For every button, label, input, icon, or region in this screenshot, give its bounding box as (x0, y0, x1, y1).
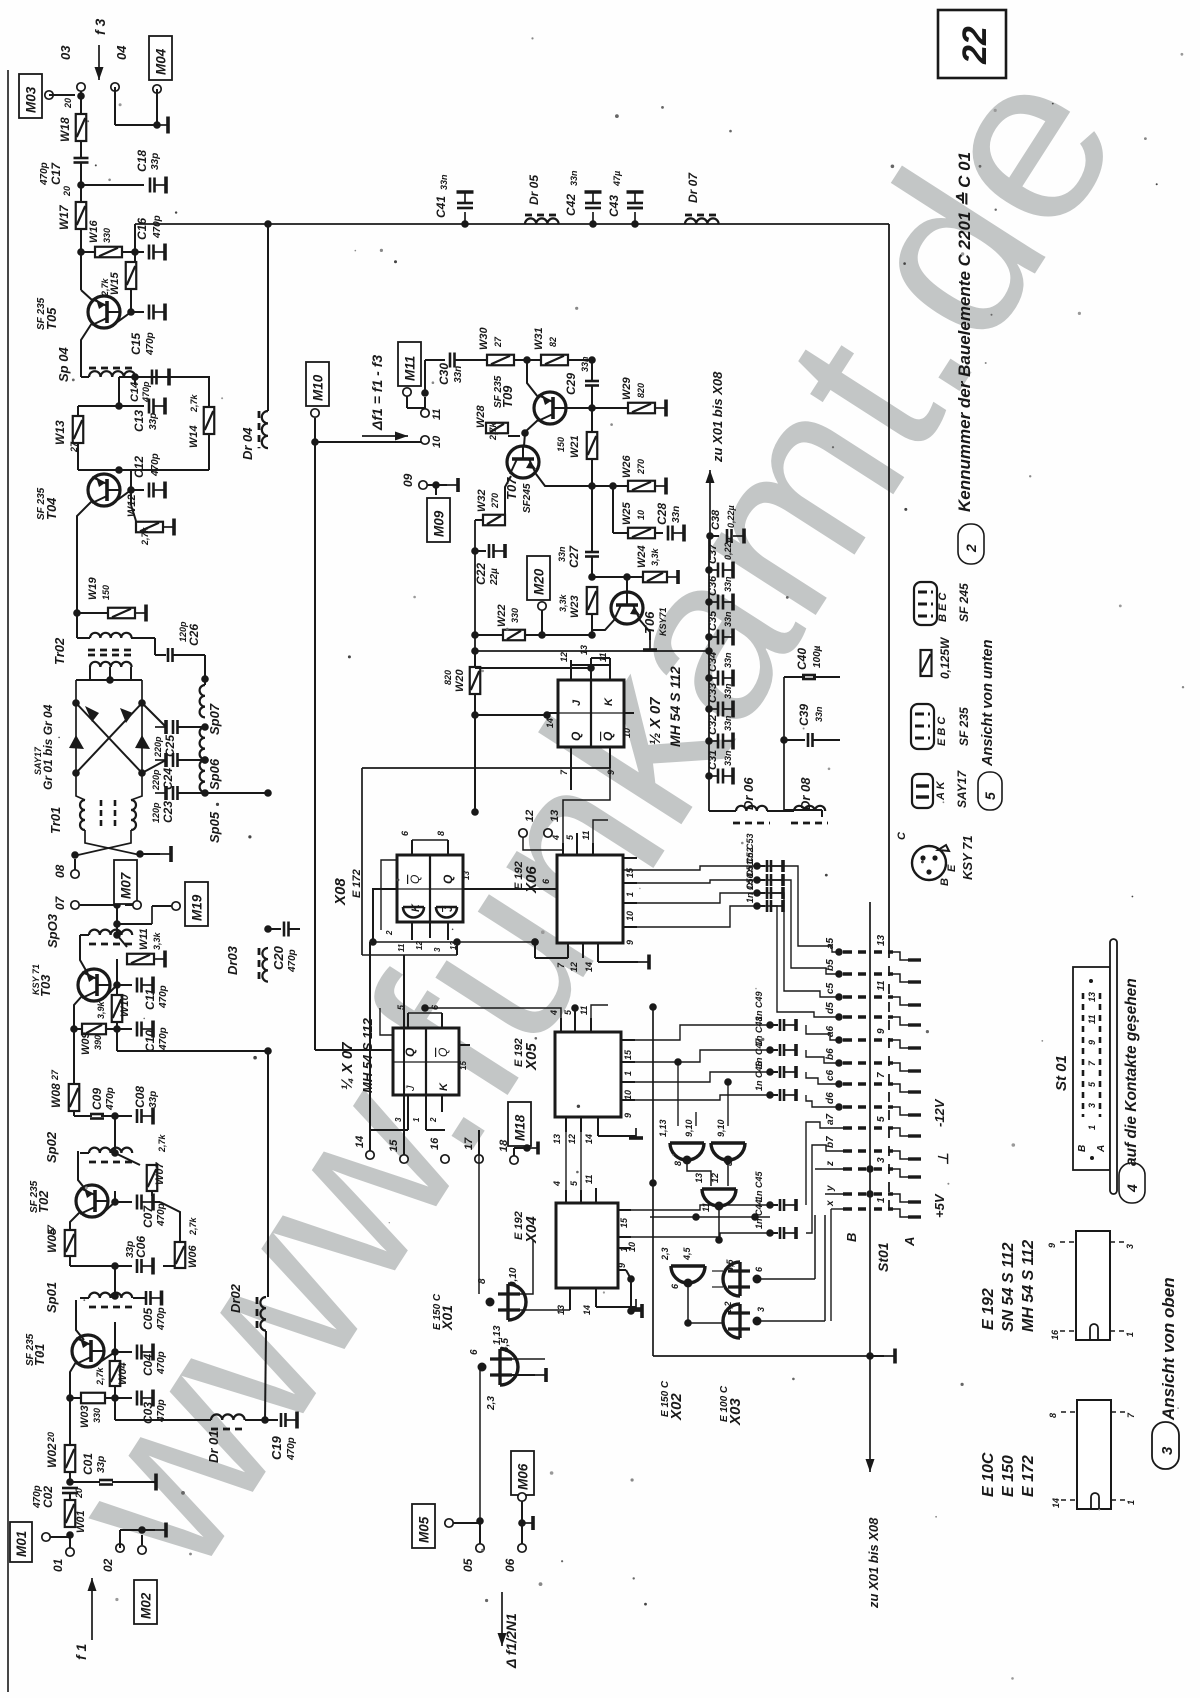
gate B-C wire (727, 1160, 729, 1186)
node W23 top (588, 573, 596, 581)
svg-text:Q: Q (436, 1048, 450, 1057)
cap C27 (585, 551, 599, 554)
T02 collector node (104, 1202, 115, 1212)
svg-text:C10: C10 (143, 1030, 157, 1052)
svg-text:3,3k: 3,3k (558, 593, 568, 612)
IC view E100 pins (1061, 1411, 1077, 1413)
svg-text:3,3k: 3,3k (152, 931, 162, 950)
oval 4 (1119, 1163, 1145, 1203)
junction z (866, 1165, 874, 1173)
wire to Sp07 (204, 655, 206, 679)
resistor W11 (117, 935, 127, 947)
svg-text:33n: 33n (453, 366, 464, 383)
resistor W32 (505, 476, 511, 515)
svg-text:M04: M04 (154, 48, 169, 75)
svg-text:1: 1 (623, 1071, 633, 1076)
svg-text:Dr 08: Dr 08 (798, 777, 813, 810)
left paper edge line (7, 70, 9, 1692)
box M06 (511, 1451, 534, 1495)
svg-text:33n: 33n (569, 170, 579, 186)
IC view MH54S112 (1076, 1231, 1110, 1340)
St01 ground (866, 1352, 874, 1360)
svg-text:10: 10 (636, 510, 646, 520)
cap C11 (117, 984, 132, 986)
connector pin a7 (843, 1126, 866, 1129)
svg-text:W26: W26 (621, 455, 633, 479)
cap C24 (142, 760, 166, 773)
connector pin d5 (835, 1013, 843, 1021)
wires z y x (815, 1168, 843, 1170)
X01a wires (479, 1165, 490, 1302)
svg-text:12: 12 (567, 1134, 577, 1144)
svg-text:150: 150 (101, 585, 111, 600)
wires to connector a6-d6 (806, 1025, 839, 1040)
cap C12 (131, 489, 144, 491)
svg-text:E 10C: E 10C (980, 1452, 997, 1497)
svg-text:C26: C26 (187, 624, 201, 646)
diode Gr01 (85, 706, 99, 722)
terminal M10 (311, 409, 319, 417)
svg-text:1: 1 (625, 892, 635, 897)
connector line B (869, 902, 871, 1356)
X04 pins bottom (569, 1288, 571, 1303)
svg-text:W04: W04 (117, 1362, 129, 1385)
arrow delta f1/2N1 (501, 1592, 503, 1646)
svg-text:C04: C04 (141, 1354, 155, 1376)
cap C25 (142, 703, 166, 727)
Tr02 center tap (106, 676, 114, 684)
svg-text:3,9k: 3,9k (96, 1000, 106, 1019)
svg-text:W12: W12 (126, 494, 138, 517)
choke Dr02 (260, 1297, 266, 1331)
svg-text:2,7k: 2,7k (189, 393, 199, 413)
svg-text:16: 16 (429, 1137, 441, 1150)
arrow zu X01 bis X08 down (869, 1356, 871, 1472)
node M06 (518, 1519, 526, 1527)
svg-text:K: K (603, 697, 615, 706)
wire node W18 top (77, 92, 85, 100)
svg-text:33n: 33n (723, 750, 733, 766)
svg-text:Sp07: Sp07 (207, 703, 222, 735)
svg-text:W11: W11 (138, 928, 150, 950)
svg-text:W24: W24 (636, 545, 648, 568)
terminal M11 (403, 388, 411, 396)
choke Dr08 (794, 806, 825, 811)
wire W14 top (196, 377, 209, 380)
oval 5 (978, 772, 1002, 810)
cap C41 (461, 220, 469, 228)
svg-text:330: 330 (102, 228, 112, 243)
cap C39 (784, 739, 805, 741)
svg-text:A: A (902, 1237, 917, 1247)
X08 wiring left (373, 889, 385, 942)
svg-text:13: 13 (462, 871, 471, 880)
cap C13 (118, 377, 120, 406)
svg-text:C18: C18 (135, 150, 149, 172)
svg-text:14: 14 (545, 718, 555, 728)
svg-text:KSY71: KSY71 (658, 607, 668, 636)
svg-text:820: 820 (443, 670, 453, 685)
svg-text:z: z (825, 1161, 836, 1167)
svg-text:1,2: 1,2 (723, 1301, 733, 1314)
gate B in wire (727, 1082, 729, 1126)
svg-text:05: 05 (461, 1558, 475, 1572)
svg-text:SF 245: SF 245 (957, 583, 971, 622)
svg-text:470p: 470p (156, 1203, 167, 1227)
svg-text:E: E (946, 864, 958, 872)
svg-text:33n: 33n (723, 611, 733, 627)
svg-text:4: 4 (551, 835, 561, 841)
Tr02 sec to ring (76, 679, 90, 681)
wire X08 pin13 to X06 pin6 (473, 888, 557, 890)
svg-text:10: 10 (431, 435, 443, 448)
svg-text:W14: W14 (188, 425, 200, 448)
terminal f3 out (77, 83, 85, 91)
W14 bottom wire (119, 469, 209, 471)
X06 pins bottom (567, 943, 569, 958)
svg-text:13: 13 (579, 645, 589, 655)
transistor T02 (76, 1185, 108, 1217)
svg-text:C28: C28 (655, 503, 669, 525)
terminal 03 (45, 91, 53, 99)
T02 base wire (70, 1212, 80, 1230)
svg-text:10: 10 (622, 728, 632, 738)
X02b wires (757, 1278, 815, 1280)
svg-text:0,22µ: 0,22µ (723, 537, 733, 560)
svg-text:-12V: -12V (932, 1098, 947, 1127)
W06 top wire (160, 1202, 180, 1242)
connector pin y (843, 1192, 866, 1195)
svg-text:3: 3 (433, 947, 442, 952)
top rail wire (135, 223, 889, 225)
svg-text:3: 3 (1159, 1446, 1176, 1455)
scan speckle dots (394, 260, 397, 263)
svg-text:Sp06: Sp06 (207, 758, 222, 790)
T03 collector node (106, 985, 117, 996)
svg-text:C42: C42 (564, 194, 578, 216)
svg-text:E 150 C: E 150 C (660, 1380, 671, 1417)
svg-text:SAY17: SAY17 (955, 770, 969, 808)
svg-text:15: 15 (623, 1049, 633, 1060)
resistor W28 (486, 423, 508, 434)
connector pin z (843, 1167, 866, 1170)
wire W13 to C13 node (78, 469, 131, 471)
svg-text:J: J (405, 1085, 417, 1092)
terminal M19 (172, 902, 180, 910)
svg-text:Dr 06: Dr 06 (741, 777, 756, 810)
T05 collector node (116, 312, 131, 323)
svg-text:C41: C41 (434, 196, 448, 218)
svg-text:C: C (896, 831, 908, 840)
svg-text:20: 20 (62, 186, 72, 197)
X07b wiring (408, 1012, 442, 1014)
svg-text:2,7k: 2,7k (157, 1133, 167, 1153)
svg-text:Δf1 = f1 - f3: Δf1 = f1 - f3 (369, 355, 385, 431)
svg-text:33n: 33n (723, 715, 733, 731)
svg-text:4: 4 (1124, 1184, 1140, 1193)
caps C51 C52 C53 (753, 862, 761, 870)
box M02 (134, 1580, 157, 1624)
transistor bottom view KSY71 (912, 846, 946, 880)
svg-text:4,5: 4,5 (500, 1338, 511, 1353)
T07 emitter wire (536, 474, 592, 486)
svg-text:W13: W13 (53, 420, 67, 445)
svg-text:Q: Q (408, 875, 422, 884)
svg-text:15: 15 (625, 867, 635, 878)
gate A-C wire (687, 1160, 711, 1186)
right frame wire down (888, 224, 890, 948)
svg-text:1: 1 (876, 1197, 887, 1203)
svg-text:20: 20 (74, 1488, 84, 1499)
terminal 07 (71, 901, 79, 909)
wire W10 node to rail line (116, 1029, 118, 1051)
svg-text:10: 10 (623, 1090, 633, 1100)
svg-text:W03: W03 (79, 1405, 91, 1428)
svg-text:9: 9 (617, 1263, 627, 1268)
resistor W03 (66, 1394, 74, 1402)
svg-text:9: 9 (1047, 1243, 1057, 1248)
svg-text:2,7k: 2,7k (188, 1216, 198, 1236)
svg-text:330: 330 (92, 1408, 102, 1423)
node W09/W10 (113, 1025, 121, 1033)
package SF235 (911, 704, 934, 749)
cap C06 (115, 1265, 132, 1267)
svg-text:c5: c5 (825, 982, 836, 994)
long vertical x653 (652, 1007, 654, 1356)
node C20 (264, 925, 272, 933)
X07a pin10 (624, 712, 634, 714)
X05 pin14 ground (597, 1132, 599, 1136)
svg-text:270: 270 (490, 493, 500, 509)
svg-text:W16: W16 (88, 220, 100, 244)
svg-text:33n: 33n (557, 546, 567, 562)
svg-text:470p: 470p (158, 985, 169, 1009)
svg-text:15: 15 (388, 1139, 400, 1152)
caps C44 C45 (766, 1201, 774, 1209)
resistor W29 (592, 407, 628, 409)
svg-text:C36: C36 (707, 575, 719, 596)
svg-text:33n: 33n (580, 356, 590, 372)
long wire y1217 (650, 1216, 770, 1218)
svg-text:9: 9 (625, 940, 635, 945)
terminal 11 (421, 409, 429, 417)
svg-text:8: 8 (673, 1161, 683, 1166)
X07a pins top (570, 665, 572, 680)
X04 pins top (565, 1190, 567, 1203)
svg-text:SF 235: SF 235 (36, 297, 47, 330)
caps C46-C49 (766, 1021, 774, 1029)
IC X04 block (556, 1203, 618, 1288)
svg-text:B: B (939, 878, 951, 886)
svg-text:2,7k: 2,7k (488, 421, 498, 441)
svg-text:01: 01 (51, 1558, 65, 1572)
cap C01 (70, 1481, 100, 1483)
svg-text:33n: 33n (671, 506, 682, 523)
transistor T09 (534, 392, 566, 424)
svg-text:E 100 C: E 100 C (719, 1385, 730, 1422)
svg-text:Sp 04: Sp 04 (56, 347, 71, 382)
node W31 out (568, 359, 592, 361)
svg-text:M20: M20 (532, 568, 547, 595)
cap C02 (62, 1487, 78, 1490)
svg-text:6: 6 (469, 1349, 480, 1355)
X05 pins bottom (565, 1117, 567, 1132)
node C17/C19 (77, 181, 85, 189)
transistor T05 (88, 296, 120, 328)
terminal 02 (116, 1544, 124, 1552)
coil Sp04 (89, 371, 135, 377)
svg-text:3: 3 (756, 1307, 766, 1312)
node W19 (73, 609, 81, 617)
svg-text:C16: C16 (135, 218, 149, 240)
rail junction x272 (264, 220, 272, 228)
svg-text:C09: C09 (90, 1088, 104, 1110)
arrow zu X01 bis X08 up (709, 470, 711, 560)
box M07 (114, 860, 137, 904)
svg-text:W31: W31 (533, 327, 545, 350)
svg-text:470p: 470p (287, 949, 298, 973)
svg-text:1,13: 1,13 (658, 1119, 668, 1137)
svg-text:M19: M19 (190, 894, 205, 921)
X01b ground (512, 1374, 535, 1376)
node 11 (421, 389, 429, 397)
svg-text:C08: C08 (133, 1086, 147, 1108)
svg-text:5: 5 (982, 792, 998, 800)
svg-text:Dr 04: Dr 04 (240, 427, 255, 460)
svg-text:a5: a5 (825, 937, 836, 949)
svg-text:W02: W02 (45, 1443, 59, 1468)
svg-text:14: 14 (1051, 1498, 1061, 1508)
transformer Tr01 (80, 800, 85, 830)
svg-text:C17: C17 (49, 162, 63, 185)
box M18 (508, 1102, 531, 1146)
Tr02 secondary wires (131, 637, 155, 639)
svg-text:20: 20 (63, 98, 73, 109)
svg-text:3: 3 (876, 1157, 887, 1163)
node M20/W22 (525, 634, 542, 636)
svg-text:02: 02 (101, 1558, 115, 1572)
choke Dr04 (267, 224, 269, 411)
T06 base wire (626, 577, 628, 592)
svg-text:20: 20 (46, 1432, 56, 1443)
box MC4 (149, 36, 172, 80)
svg-text:Ansicht von unten: Ansicht von unten (980, 639, 996, 767)
svg-text:M10: M10 (311, 374, 326, 401)
X08 side pins (385, 888, 397, 890)
cap C37 (705, 566, 713, 574)
package SAY17 (912, 774, 933, 808)
terminal 09 (419, 481, 427, 489)
resistor W20 (474, 651, 476, 667)
svg-text:4: 4 (549, 1010, 559, 1016)
Tr01 bottom cross (85, 830, 140, 855)
svg-text:1n C46: 1n C46 (754, 1060, 764, 1091)
box M05 (412, 1504, 435, 1548)
resistor W19 (77, 612, 108, 614)
svg-text:C27: C27 (567, 545, 581, 568)
IC view MH54S112 pins (1060, 1241, 1076, 1243)
terminal M04 (153, 85, 161, 93)
svg-text:2,7k: 2,7k (100, 277, 110, 297)
capacitor C16 (135, 251, 144, 253)
cap C04 (115, 1351, 132, 1353)
svg-text:9: 9 (876, 1028, 887, 1034)
svg-text:SF 235: SF 235 (36, 487, 47, 520)
resistor legend 0.125W (921, 650, 932, 676)
svg-text:MH 54 S 112: MH 54 S 112 (667, 666, 683, 747)
box M10 (306, 362, 329, 406)
svg-text:15: 15 (619, 1217, 629, 1228)
svg-text:Q: Q (441, 874, 455, 884)
M10 wire to X07b (315, 1049, 393, 1051)
transistor T03 (78, 969, 110, 1001)
St01 drawing dots (1089, 979, 1093, 983)
T05 base wire (80, 252, 82, 290)
svg-text:470p: 470p (145, 332, 156, 356)
X05 pins right (621, 1039, 635, 1041)
svg-text:14: 14 (354, 1136, 366, 1148)
X07a top wires (571, 664, 610, 666)
svg-text:Tr01: Tr01 (48, 807, 63, 834)
svg-text:E 192: E 192 (513, 1211, 525, 1240)
svg-text:E B C: E B C (936, 716, 948, 746)
svg-text:2: 2 (963, 544, 979, 553)
svg-text:10: 10 (627, 1242, 637, 1252)
M10 node (311, 438, 319, 446)
svg-text:W30: W30 (478, 327, 490, 351)
svg-text:470p: 470p (39, 162, 50, 186)
package SF245 (914, 582, 937, 625)
svg-text:27: 27 (69, 441, 79, 453)
capacitor C15 (131, 311, 144, 313)
node W25 branch (609, 482, 617, 490)
terminal 18 (510, 1156, 518, 1164)
svg-text:2,3: 2,3 (660, 1247, 670, 1261)
oval 2 (958, 524, 984, 564)
svg-text:W15: W15 (109, 272, 121, 296)
svg-text:SN 54 S 112: SN 54 S 112 (1000, 1242, 1017, 1332)
svg-text:Q: Q (569, 731, 583, 741)
svg-text:X06: X06 (523, 866, 540, 894)
svg-text:d6: d6 (825, 1092, 836, 1104)
svg-text:10: 10 (625, 911, 635, 921)
cap C10 (117, 1028, 132, 1030)
svg-text:17: 17 (463, 1137, 475, 1150)
svg-text:W08: W08 (49, 1083, 63, 1108)
svg-text:15: 15 (459, 1061, 468, 1070)
svg-text:b6: b6 (825, 1048, 836, 1060)
transformer Tr02 (76, 613, 78, 638)
svg-text:33n: 33n (439, 174, 449, 190)
svg-text:W32: W32 (476, 489, 488, 512)
svg-text:C31: C31 (707, 750, 719, 770)
svg-text:W17: W17 (57, 204, 71, 230)
svg-text:KSY 71: KSY 71 (960, 835, 975, 880)
svg-text:f 3: f 3 (92, 18, 108, 35)
node W02/C01 (69, 1472, 71, 1482)
ground 18 (523, 1144, 531, 1152)
svg-text:Kennummer der Bauelemente C 2: Kennummer der Bauelemente C 2201 ≙ C 01 (955, 152, 974, 512)
svg-text:4: 4 (552, 1181, 562, 1187)
node x475 y812 (471, 808, 479, 816)
svg-text:470p: 470p (150, 453, 161, 477)
terminal M20 (538, 602, 546, 610)
terminal M05 wire (476, 1517, 484, 1525)
terminals 14 15 16 17 (366, 1151, 374, 1159)
cap C40 (784, 676, 805, 678)
svg-text:⊥: ⊥ (935, 1153, 951, 1165)
cap C42 (589, 220, 597, 228)
